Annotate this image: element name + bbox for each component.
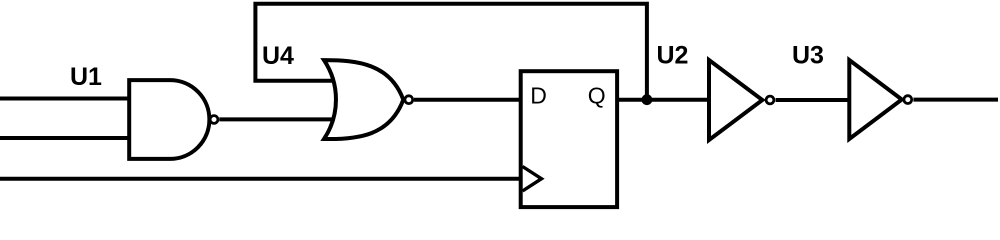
svg-text:D: D [530, 83, 547, 109]
svg-text:U4: U4 [262, 42, 294, 70]
wire input A to U1 [0, 97, 129, 101]
svg-text:U1: U1 [70, 63, 102, 91]
d-flip-flop U5 box [521, 71, 617, 207]
inverter U2 body [709, 60, 762, 140]
wire U4 output to D input [414, 98, 519, 102]
wire U2 output to U3 input [776, 98, 848, 102]
nand-gate U1 body [129, 80, 209, 159]
wire U1 output to U4 input [219, 117, 333, 121]
wire clock net [0, 177, 519, 181]
nor-gate U4 body [324, 60, 403, 139]
svg-text:U2: U2 [657, 42, 689, 70]
inverter U3 output bubble [904, 96, 912, 104]
wire Q output to node [619, 98, 708, 102]
d-flip-flop clock triangle [523, 167, 542, 192]
wire input B to U1 [0, 136, 129, 140]
node junction dot [642, 94, 653, 105]
nand-gate U1 output bubble [210, 116, 218, 124]
inverter U2 output bubble [766, 96, 774, 104]
nor-gate U4 output bubble [405, 96, 413, 104]
svg-text:U3: U3 [792, 42, 824, 70]
wire feedback from node Q up over to U4 input [255, 4, 647, 100]
svg-text:Q: Q [588, 83, 606, 109]
inverter U3 body [849, 60, 902, 139]
wire U3 output to right edge [913, 98, 998, 102]
